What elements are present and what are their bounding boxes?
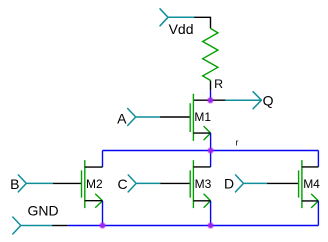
svg-text:B: B	[10, 176, 19, 192]
transistor M3 source stub	[193, 200, 210, 202]
port Vdd	[160, 9, 194, 26]
transistor M3 drain stub	[193, 166, 210, 168]
transistor M4	[299, 160, 319, 208]
svg-text:D: D	[224, 176, 234, 192]
wire M4 source to ground	[317, 201, 319, 226]
svg-text:GND: GND	[28, 203, 59, 219]
wire A to M1 gate	[160, 116, 189, 118]
svg-text:Vdd: Vdd	[169, 21, 194, 37]
port C	[128, 175, 160, 192]
svg-text:M3: M3	[195, 177, 212, 191]
wire C to M3 gate	[160, 182, 189, 184]
wire net r (horizontal)	[103, 150, 319, 152]
port GND	[13, 217, 53, 234]
port B	[18, 175, 53, 192]
wire D to M4 gate	[267, 182, 298, 184]
transistor M2	[82, 160, 103, 208]
wire Vdd to resistor	[194, 17, 210, 28]
transistor M4 source stub	[302, 200, 319, 202]
transistor M2 drain stub	[85, 166, 103, 168]
wire r to M2 drain	[102, 151, 104, 168]
junction node M3 source/ground	[208, 223, 214, 229]
wire B to M2 gate	[53, 182, 81, 184]
junction node M2 source/ground	[100, 223, 106, 229]
port D	[236, 175, 268, 192]
svg-text:r: r	[236, 137, 239, 147]
svg-text:C: C	[118, 176, 128, 192]
resistor R	[203, 28, 218, 80]
svg-text:M4: M4	[303, 177, 320, 191]
svg-text:M2: M2	[86, 177, 103, 191]
svg-text:M1: M1	[194, 110, 211, 124]
transistor M2 source stub	[85, 200, 103, 202]
svg-text:A: A	[117, 110, 127, 126]
junction node at resistor/M1 drain/Q	[208, 97, 214, 103]
wire node to Q (M1 drain stub + wire)	[193, 99, 226, 101]
wire M1 source to M3 drain (blue vertical)	[210, 133, 212, 167]
transistor M3	[190, 160, 210, 208]
port Q	[226, 92, 262, 109]
junction node r net	[208, 148, 214, 154]
svg-text:R: R	[214, 77, 223, 91]
wire M3 source to ground	[210, 201, 212, 226]
svg-text:Q: Q	[263, 92, 274, 108]
wire r to M4 drain	[317, 151, 319, 167]
transistor M1	[190, 94, 210, 141]
wire ground net (blue horizontal)	[68, 225, 319, 227]
transistor M4 drain stub	[302, 166, 319, 168]
transistor M1 source stub	[193, 132, 210, 134]
wire GND black segment	[52, 225, 68, 227]
wire M2 source to ground	[102, 201, 104, 226]
port A	[128, 109, 161, 126]
resistor R bottom lead	[210, 81, 212, 91]
wire resistor to node (blue)	[210, 90, 212, 100]
